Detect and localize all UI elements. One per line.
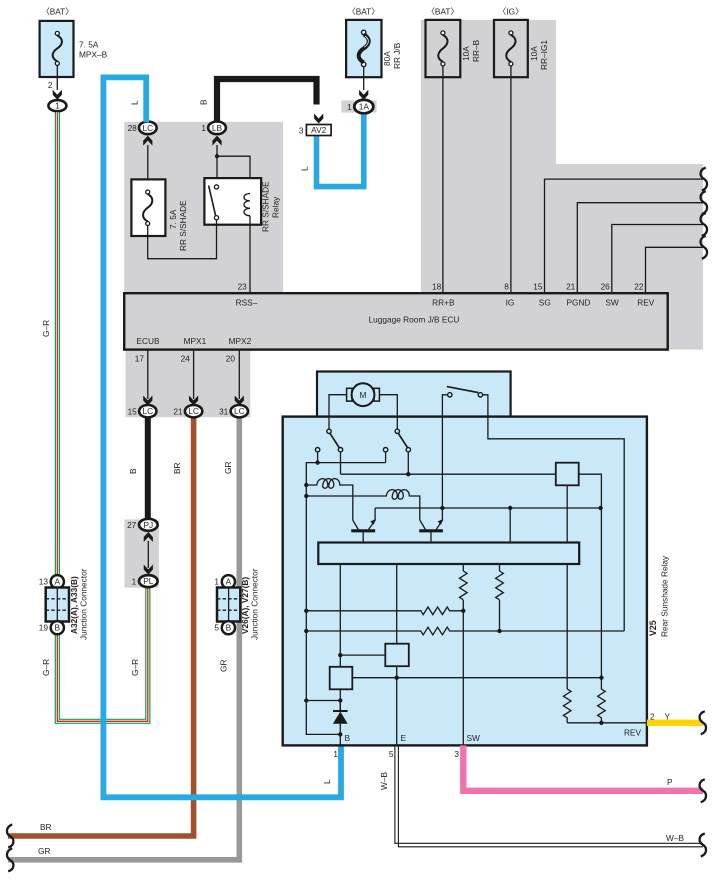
wire x499.5 line IC to y631 xyxy=(499,564,501,631)
svg-text:15: 15 xyxy=(128,407,138,417)
svg-text:MPX1: MPX1 xyxy=(184,336,207,346)
wire S2-S3 link y655.1 xyxy=(340,654,385,656)
junction switch B blade rail xyxy=(406,472,410,476)
wire coil to ECU pin 23 xyxy=(249,216,251,294)
svg-text:1: 1 xyxy=(214,577,219,587)
continuation mark P xyxy=(700,779,706,802)
svg-text:ECUB: ECUB xyxy=(136,336,160,346)
svg-text:1: 1 xyxy=(347,102,352,112)
svg-text:BR: BR xyxy=(172,462,182,474)
wire fuse bottom to relay switch xyxy=(148,220,217,259)
svg-text:RR S/SHADE: RR S/SHADE xyxy=(261,181,271,232)
resistor R6 bottom right xyxy=(598,682,606,723)
fuse 80A RR J/B xyxy=(346,7,402,78)
svg-text:20: 20 xyxy=(226,354,236,364)
svg-text:M: M xyxy=(360,390,367,400)
square S1 xyxy=(556,463,579,486)
wire between PJ and PL xyxy=(147,541,149,568)
top switch blade xyxy=(447,387,478,393)
wire B from LC 15 to PJ xyxy=(145,415,151,519)
gray band below ECU xyxy=(126,350,251,418)
continuation mark Y xyxy=(700,711,706,734)
svg-text:V26(A), V27(B): V26(A), V27(B) xyxy=(240,577,250,634)
top switch right contact wire to right riser xyxy=(483,395,625,631)
svg-text:7. 5A: 7. 5A xyxy=(79,40,99,50)
junction diode top xyxy=(338,698,342,702)
svg-text:REV: REV xyxy=(624,728,642,738)
wire W-B double line from E xyxy=(395,745,703,846)
relay switch contacts xyxy=(214,185,218,189)
continuation mark W-B xyxy=(700,834,706,857)
svg-text:23: 23 xyxy=(238,282,248,292)
junction emitter bus IC tap xyxy=(508,506,512,510)
wire IC to S2 and diode line xyxy=(339,564,341,667)
inductor L2 xyxy=(306,490,420,520)
connector 1 oval xyxy=(48,100,66,111)
motor M wires xyxy=(329,395,347,429)
svg-text:31: 31 xyxy=(219,407,229,417)
junction rail R2 xyxy=(304,629,308,633)
svg-text:G–R: G–R xyxy=(41,320,51,337)
junction rail L1 xyxy=(304,483,308,487)
svg-text:3: 3 xyxy=(299,126,304,136)
junction R1 SW line xyxy=(461,609,465,613)
svg-text:A: A xyxy=(55,577,61,587)
svg-text:B: B xyxy=(226,623,232,633)
svg-text:RR J/B: RR J/B xyxy=(392,42,402,69)
inductor L1 xyxy=(306,479,353,520)
wire y508 to IC xyxy=(509,508,511,543)
svg-text:1A: 1A xyxy=(359,102,370,112)
wire S2 right to riser y677.7 xyxy=(353,677,602,679)
connector LB pin 1 xyxy=(208,122,226,135)
svg-text:LC: LC xyxy=(234,406,245,416)
svg-text:A32(A), A33(B): A32(A), A33(B) xyxy=(69,576,79,634)
arrow into LC 15 xyxy=(143,396,152,406)
connector LC pin 28 xyxy=(139,122,157,135)
wire y700.5 rail to diode xyxy=(306,700,340,702)
wire rail y462.6 xyxy=(306,463,385,735)
junction R2 tap xyxy=(497,629,501,633)
continuation mark BR xyxy=(7,825,13,848)
svg-text:80A: 80A xyxy=(382,51,392,66)
svg-text:A: A xyxy=(226,577,232,587)
junction connector A32(A) A33(B) xyxy=(51,575,64,588)
changeover switch A xyxy=(327,429,331,433)
svg-text:27: 27 xyxy=(127,520,137,530)
changeover A blade contact wire down xyxy=(340,452,342,474)
junction rail L2 xyxy=(304,494,308,498)
svg-text:GR: GR xyxy=(38,846,50,856)
continuation mark SG xyxy=(701,168,707,191)
junction connector V26(A) V27(B) xyxy=(222,575,235,588)
svg-text:AV2: AV2 xyxy=(311,125,326,135)
wire G-R U-turn from junction connector B to PL xyxy=(57,588,148,722)
svg-text:18: 18 xyxy=(432,282,442,292)
node LB junction xyxy=(215,154,219,158)
svg-text:RR S/SHADE: RR S/SHADE xyxy=(178,200,188,251)
arrow into LC 31 xyxy=(235,396,244,406)
square S2 xyxy=(330,667,353,690)
gray band behind connector 1A xyxy=(341,100,376,112)
svg-text:B: B xyxy=(55,623,61,633)
wire S1 right to riser x601.4 xyxy=(579,474,602,682)
gray panel PJ/PL connector xyxy=(125,519,159,587)
svg-text:21: 21 xyxy=(173,407,183,417)
gray panel top-right fuses xyxy=(421,20,556,293)
diode D1 xyxy=(333,710,348,712)
junction emitter bus right xyxy=(598,506,602,510)
svg-text:V25: V25 xyxy=(648,620,658,636)
svg-text:13: 13 xyxy=(39,577,49,587)
svg-text:L: L xyxy=(300,166,310,171)
svg-text:Luggage Room J/B ECU: Luggage Room J/B ECU xyxy=(369,315,460,325)
fuse 7.5A MPX-B xyxy=(40,7,108,78)
svg-text:17: 17 xyxy=(135,354,145,364)
wire BR from LC 21 to left edge xyxy=(8,415,194,836)
svg-text:L: L xyxy=(322,779,332,784)
fuse 10A RR-B xyxy=(426,7,482,78)
gray panel staircase area xyxy=(556,164,703,350)
Q2 emitter arrow xyxy=(438,519,444,525)
svg-text:W–B: W–B xyxy=(666,833,684,843)
svg-text:RR+B: RR+B xyxy=(432,298,455,308)
junction R6 top xyxy=(599,676,603,680)
resistor R5 bottom left xyxy=(563,689,571,723)
junction S2 link xyxy=(338,653,342,657)
relay switch blade xyxy=(209,186,216,216)
connector LC pin 21 xyxy=(185,405,202,417)
svg-text:10A: 10A xyxy=(461,46,471,61)
junction REV bus xyxy=(599,721,603,725)
svg-text:RSS–: RSS– xyxy=(236,298,258,308)
connector PJ pin 27 xyxy=(139,519,158,531)
svg-text:24: 24 xyxy=(181,354,191,364)
svg-text:Junction Connector: Junction Connector xyxy=(250,568,260,640)
svg-text:E: E xyxy=(401,733,407,743)
svg-text:B: B xyxy=(345,733,351,743)
wire L main blue: relay B pin, bottom run, left riser, to LC 28 xyxy=(103,77,341,797)
svg-text:19: 19 xyxy=(39,623,49,633)
pin line 17 ECUB xyxy=(147,350,149,399)
wire RR-B fuse to pin 18 xyxy=(442,66,444,293)
wire y610.8 with resistor R1 xyxy=(306,607,463,615)
arrow into LC 21 xyxy=(189,396,198,406)
svg-text:RR–B: RR–B xyxy=(471,39,481,62)
fuse 10A RR-IG1 xyxy=(494,7,549,78)
transistor bars xyxy=(351,529,443,532)
svg-text:〈BAT〉: 〈BAT〉 xyxy=(41,7,73,17)
resistor R3 vertical on SW line xyxy=(459,571,467,600)
svg-text:B: B xyxy=(128,468,138,474)
junction emitter bus left xyxy=(440,506,444,510)
wire B from LB to AV2 (black) xyxy=(217,79,317,122)
wire junction to coil xyxy=(217,156,250,193)
square S3 xyxy=(385,644,409,667)
svg-text:〈IG〉: 〈IG〉 xyxy=(498,7,523,17)
wire emitters y508 xyxy=(375,507,600,509)
svg-text:10A: 10A xyxy=(529,46,539,61)
wire G-R from connector 1 to junction connector A xyxy=(55,112,60,576)
svg-text:PJ: PJ xyxy=(143,520,153,530)
svg-text:G–R: G–R xyxy=(130,659,140,676)
wire REV to right edge xyxy=(646,247,704,293)
svg-text:26: 26 xyxy=(601,282,611,292)
svg-text:Relay: Relay xyxy=(271,196,281,218)
svg-text:3: 3 xyxy=(454,749,459,759)
svg-text:G–R: G–R xyxy=(41,659,51,676)
svg-text:LC: LC xyxy=(142,123,153,133)
junction rail R1 xyxy=(304,609,308,613)
Q1 emitter arrow xyxy=(370,519,376,525)
svg-text:LC: LC xyxy=(188,406,199,416)
Luggage Room J/B ECU box xyxy=(124,293,668,349)
svg-text:1: 1 xyxy=(201,123,206,133)
connector PL pin 1 xyxy=(139,575,158,587)
junction dots xyxy=(304,460,604,736)
arrow up toward PJ xyxy=(144,532,153,542)
wire Y yellow from REV xyxy=(647,720,703,726)
svg-text:LC: LC xyxy=(142,406,153,416)
wire LB down to junction xyxy=(216,145,218,186)
changeover A left contact wire xyxy=(317,452,319,463)
svg-text:LB: LB xyxy=(212,123,223,133)
RR S/SHADE relay box xyxy=(204,178,261,225)
svg-text:〈BAT〉: 〈BAT〉 xyxy=(347,7,379,17)
transistor Q2 xyxy=(419,508,443,543)
wire L from 1A to AV2 (blue) xyxy=(317,115,364,187)
svg-text:L: L xyxy=(130,100,140,105)
svg-text:1: 1 xyxy=(333,749,338,759)
continuation mark GR xyxy=(7,848,13,871)
svg-text:7. 5A: 7. 5A xyxy=(168,209,178,229)
svg-text:Junction Connector: Junction Connector xyxy=(79,568,89,640)
node B xyxy=(338,732,342,736)
continuation mark SW xyxy=(701,213,707,236)
svg-text:PL: PL xyxy=(143,576,154,586)
svg-text:SG: SG xyxy=(539,298,551,308)
svg-text:5: 5 xyxy=(214,623,219,633)
top switch contacts xyxy=(448,393,452,397)
diode D1 cathode lead xyxy=(339,701,341,712)
svg-text:21: 21 xyxy=(566,282,576,292)
svg-text:22: 22 xyxy=(634,282,644,292)
relay coil xyxy=(244,194,250,216)
resistor R4 vertical on x499.5 xyxy=(496,571,504,600)
wire y474.2 to square S1 xyxy=(341,473,556,475)
wire y631 with resistor R2 xyxy=(306,627,624,635)
svg-text:5: 5 xyxy=(389,749,394,759)
fuse 7.5A RR S/SHADE xyxy=(131,179,188,251)
wire fuse to connector 1 xyxy=(56,65,58,90)
pin line 24 MPX1 xyxy=(193,350,195,399)
relay V25 main box xyxy=(283,417,647,746)
wire S2 bottom to B node xyxy=(339,689,341,710)
svg-text:IG: IG xyxy=(506,298,515,308)
transistor Q1 xyxy=(351,508,375,543)
continuation mark REV xyxy=(701,236,707,259)
svg-text:2: 2 xyxy=(48,80,53,90)
continuation mark PGND xyxy=(701,191,707,214)
wire SW to right edge xyxy=(612,225,703,294)
svg-text:P: P xyxy=(667,777,673,787)
svg-text:REV: REV xyxy=(637,298,655,308)
wire SG to right edge xyxy=(545,179,704,293)
top switch left contact wire down xyxy=(442,395,447,508)
svg-text:1: 1 xyxy=(132,576,137,586)
svg-text:GR: GR xyxy=(223,462,233,474)
svg-text:MPX2: MPX2 xyxy=(229,336,252,346)
diode D1 anode lead to B node xyxy=(339,724,341,746)
wire E line IC to bottom xyxy=(396,564,398,745)
wire SW line IC to bottom xyxy=(462,564,464,745)
wire x567.2 IC to left bottom resistor xyxy=(566,564,568,689)
pin line 20 MPX2 xyxy=(238,350,240,399)
svg-text:MPX–B: MPX–B xyxy=(79,50,108,60)
svg-text:BR: BR xyxy=(40,822,52,832)
wire RR-IG1 fuse to pin 8 xyxy=(510,66,512,293)
arrow up into LC 28 xyxy=(143,136,152,146)
wire 80A fuse to 1A xyxy=(363,67,365,90)
changeover B blade contact wire down xyxy=(407,452,409,474)
connector 1A oval xyxy=(354,100,373,114)
svg-text:W–B: W–B xyxy=(379,772,389,790)
svg-text:PGND: PGND xyxy=(567,298,591,308)
svg-text:28: 28 xyxy=(128,123,138,133)
svg-text:GR: GR xyxy=(219,660,229,672)
svg-text:SW: SW xyxy=(605,298,619,308)
junction E line xyxy=(395,676,399,680)
svg-text:〈BAT〉: 〈BAT〉 xyxy=(427,7,459,17)
arrow into connector 1 xyxy=(53,90,62,100)
IC box U1 xyxy=(318,543,579,565)
svg-text:SW: SW xyxy=(467,733,481,743)
wire y722.8 to REV pin xyxy=(567,722,647,724)
svg-text:1: 1 xyxy=(55,101,60,111)
wire LC to fuse RR S/SHADE xyxy=(147,145,149,179)
svg-text:8: 8 xyxy=(504,282,509,292)
relay V25 top tab box xyxy=(317,372,511,418)
arrow down toward PL xyxy=(144,565,153,575)
connector LC pin 31 xyxy=(231,405,248,417)
wire P pink from SW xyxy=(463,745,703,790)
junction rail diode link xyxy=(304,698,308,702)
svg-text:RR–IG1: RR–IG1 xyxy=(539,40,549,70)
arrow up into LB 1 xyxy=(212,136,221,146)
changeover B left contact wire xyxy=(385,452,387,463)
gray panel upper-left (RR S/SHADE area) xyxy=(124,122,283,293)
svg-text:15: 15 xyxy=(533,282,543,292)
svg-text:B: B xyxy=(199,99,209,105)
motor M xyxy=(347,383,380,406)
wire GR from LC 31 to left edge xyxy=(8,415,239,860)
arrow into 1A xyxy=(359,90,368,100)
junction switch A throw xyxy=(315,460,319,464)
connector LC pin 15 xyxy=(139,405,156,417)
svg-text:Rear Sunshade Relay: Rear Sunshade Relay xyxy=(660,555,670,637)
wire PGND to right edge xyxy=(577,203,703,294)
changeover switch B xyxy=(395,429,399,433)
arrow into AV2 xyxy=(314,114,323,124)
wire S1 bottom to IC xyxy=(566,485,568,543)
